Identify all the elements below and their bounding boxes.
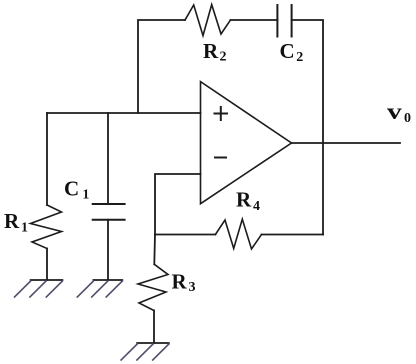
op-amp plus input marker (215, 107, 228, 120)
wire mid vertical junction down to R3 (153, 235, 156, 265)
wire C2 to right feedback vertical down to output node (292, 20, 323, 143)
wire R4 left segment (155, 234, 215, 236)
label C1 (64, 177, 89, 203)
capacitor C1 (93, 204, 125, 220)
op-amp minus input marker (215, 157, 226, 159)
svg-text:0: 0 (404, 111, 411, 126)
resistor R2 (185, 5, 231, 36)
svg-text:3: 3 (189, 280, 196, 295)
svg-text:R: R (203, 39, 219, 63)
op-amp U1 (201, 82, 292, 204)
wire C1 branch from + node down to C1 (107, 113, 109, 204)
svg-text:1: 1 (21, 220, 28, 235)
svg-text:v: v (387, 98, 403, 124)
label R1 (4, 209, 28, 235)
wire C1 to ground (107, 220, 109, 280)
wire output node down to R4 (322, 143, 324, 235)
svg-text:2: 2 (296, 50, 303, 65)
wire left feedback from + input node up to R2 (138, 20, 185, 113)
svg-text:C: C (64, 177, 79, 201)
wire R3 to ground (153, 311, 155, 344)
svg-text:C: C (280, 39, 295, 63)
wire R4 right segment (262, 234, 324, 236)
resistor R1 (31, 205, 62, 249)
label C2 (280, 39, 304, 65)
capacitor C2 (277, 5, 291, 37)
wire R2 to C2 (231, 19, 278, 21)
svg-text:R: R (236, 187, 252, 211)
label R2 (203, 39, 227, 65)
wire - input from mid vertical to op-amp (155, 174, 201, 235)
wire left branch down to R1 (46, 113, 48, 205)
ground under R1 (15, 280, 63, 297)
svg-text:R: R (172, 270, 188, 294)
resistor R4 (215, 219, 261, 249)
label R3 (172, 270, 196, 296)
svg-text:2: 2 (220, 50, 227, 65)
wire output (292, 142, 401, 144)
ground under C1 (77, 280, 122, 297)
resistor R3 (138, 264, 168, 310)
label R4 (236, 187, 260, 214)
ground under R3 (121, 343, 169, 360)
wire + input node (47, 112, 201, 114)
label v0 output (387, 98, 411, 126)
svg-text:1: 1 (82, 187, 89, 202)
svg-text:R: R (4, 209, 20, 233)
svg-text:4: 4 (253, 199, 260, 214)
wire R1 to ground (46, 249, 48, 281)
